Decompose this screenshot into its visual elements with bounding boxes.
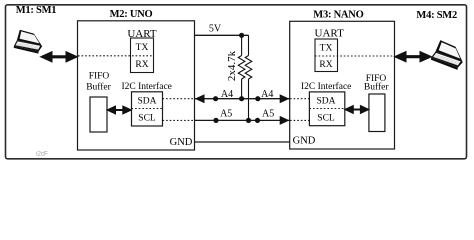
svg-text:TX: TX	[320, 44, 333, 54]
SDA/SCL separator M3	[309, 108, 344, 110]
wire A5	[195, 119, 290, 121]
svg-text:2x4.7k: 2x4.7k	[226, 50, 238, 81]
SCL dotted line M2	[163, 119, 195, 121]
wire A4	[195, 98, 290, 100]
I2C SDA/SCL box M2	[132, 92, 163, 126]
junction dot A4/R1	[239, 96, 244, 101]
laptop M1	[14, 30, 42, 54]
svg-text:M1: SM1: M1: SM1	[16, 5, 57, 16]
svg-text:FIFO: FIFO	[89, 72, 110, 82]
serial link arrow M3-M4	[395, 52, 432, 62]
UART TX/RX box M3	[315, 39, 338, 72]
svg-text:A4: A4	[221, 89, 233, 100]
SDA dotted line M3	[290, 98, 309, 100]
module M2 box	[78, 21, 195, 150]
resistor R1 2x4.7k pullup	[238, 35, 245, 98]
I2C to FIFO double arrow M3	[345, 106, 369, 114]
junction dot A5/R2	[246, 118, 251, 123]
svg-text:I2C Interface: I2C Interface	[122, 81, 172, 92]
resistor R2 2x4.7k pullup	[245, 35, 252, 120]
FIFO buffer rect M2	[90, 97, 107, 132]
junction dot A4 a	[213, 96, 218, 101]
svg-text:5V: 5V	[209, 24, 222, 35]
I2C SDA/SCL box M3	[309, 92, 344, 126]
serial dotted line into M2 UART	[78, 55, 154, 57]
SDA dotted line M2	[163, 98, 195, 100]
svg-text:TX: TX	[136, 43, 149, 53]
svg-text:GND: GND	[293, 136, 316, 147]
junction dot A5 b	[255, 118, 260, 123]
laptop M4	[430, 39, 466, 70]
svg-text:M4: SM2: M4: SM2	[416, 10, 457, 21]
FIFO buffer rect M3	[369, 94, 385, 132]
svg-text:UART: UART	[315, 27, 345, 39]
svg-text:RX: RX	[135, 60, 148, 70]
junction dot A5 a	[213, 118, 218, 123]
serial dotted line into M3 UART	[315, 55, 394, 57]
svg-text:A4: A4	[261, 89, 273, 100]
serial link arrow M1-M2	[41, 52, 78, 62]
ground wire	[195, 141, 290, 143]
junction dot 5V/R1	[239, 33, 244, 38]
SDA/SCL separator M2	[132, 108, 163, 110]
svg-text:M3: NANO: M3: NANO	[313, 9, 363, 20]
svg-text:RX: RX	[319, 60, 332, 70]
SCL dotted line M3	[290, 119, 309, 121]
arrowhead A4 right	[280, 94, 290, 103]
svg-text:I2C Interface: I2C Interface	[301, 81, 351, 92]
svg-text:SCL: SCL	[138, 114, 156, 124]
svg-text:SDA: SDA	[137, 96, 156, 106]
UART TX/RX box M2	[131, 38, 154, 73]
svg-text:i2cF: i2cF	[36, 150, 48, 157]
svg-text:SDA: SDA	[316, 96, 335, 106]
FIFO to I2C double arrow M2	[107, 106, 131, 114]
svg-text:M2: UNO: M2: UNO	[110, 9, 153, 20]
svg-text:A5: A5	[262, 109, 274, 120]
svg-text:GND: GND	[170, 137, 193, 148]
svg-text:Buffer: Buffer	[364, 82, 389, 93]
svg-text:Buffer: Buffer	[86, 81, 111, 92]
junction dot A4 b	[255, 96, 260, 101]
outer frame	[6, 5, 467, 159]
svg-text:A5: A5	[220, 109, 232, 120]
5V supply wire	[195, 34, 249, 36]
arrowhead A5 right	[280, 116, 290, 125]
arrowhead A4 left	[195, 94, 205, 103]
svg-text:SCL: SCL	[317, 113, 335, 123]
module M3 box	[290, 21, 395, 149]
